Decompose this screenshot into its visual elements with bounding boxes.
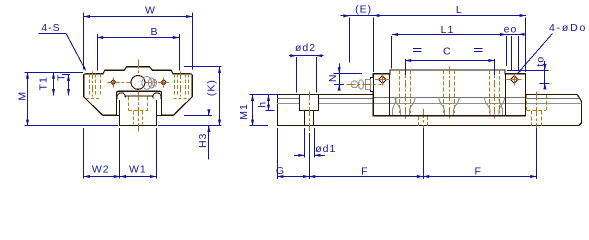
dimension T xyxy=(55,73,70,95)
dimension L1 xyxy=(392,24,506,36)
dimension M1 extension lines xyxy=(250,95,278,126)
svg-text:C: C xyxy=(443,46,452,58)
dimension G xyxy=(276,165,309,178)
dimension W2/W1 extension lines xyxy=(84,128,157,179)
left view end cap screws xyxy=(108,77,169,87)
dimension (E)/L extension lines xyxy=(350,18,526,73)
left view vertical centerline xyxy=(138,60,140,132)
dimension (E) xyxy=(341,3,374,17)
dimension to extension lines xyxy=(507,71,550,84)
dimension M1 xyxy=(238,95,254,126)
right view counterbore hole centerline xyxy=(309,91,311,131)
right view rail groove lines xyxy=(277,98,581,104)
svg-text:eo: eo xyxy=(504,23,518,35)
dimension M xyxy=(16,72,29,125)
svg-text:4-øDo: 4-øDo xyxy=(549,22,587,34)
svg-text:ød2: ød2 xyxy=(295,42,316,54)
dimension C ticks xyxy=(406,59,495,76)
left view 4-S threaded holes hidden lines + centerlines xyxy=(86,72,189,99)
svg-text:T1: T1 xyxy=(38,76,50,90)
dimension h xyxy=(257,95,271,111)
svg-text:W: W xyxy=(145,5,156,17)
right view rail outline xyxy=(277,95,581,126)
right view counterbore hole (sectioned) xyxy=(299,95,319,126)
dimension H3 xyxy=(197,109,210,159)
dimension F first xyxy=(309,166,423,179)
svg-text:G: G xyxy=(276,165,285,177)
dimension B extension lines xyxy=(98,34,180,71)
dimension d2 extension lines xyxy=(297,57,317,92)
svg-text:M: M xyxy=(16,91,28,101)
dimension B xyxy=(97,26,179,39)
dimension d2 xyxy=(289,42,324,57)
dimension eo xyxy=(504,23,525,36)
svg-text:W1: W1 xyxy=(129,164,147,176)
label 4-S with leader xyxy=(39,22,86,71)
svg-text:F: F xyxy=(474,166,481,178)
svg-text:h: h xyxy=(257,101,269,108)
dimension N xyxy=(327,64,341,91)
right view hidden bolt hole under block xyxy=(419,109,428,131)
dimension (K) top extension line xyxy=(184,66,222,68)
dimension d1 xyxy=(294,143,336,157)
right view grease nipple centerline xyxy=(347,84,382,86)
dimension T1 xyxy=(38,72,56,95)
dimension L xyxy=(373,4,526,17)
label 4-oDo with leader xyxy=(518,22,588,73)
svg-text:M1: M1 xyxy=(238,103,250,120)
dimension to xyxy=(534,56,546,90)
dimension d1 extension lines xyxy=(305,128,315,157)
right view 4-oDo hole markers xyxy=(375,74,522,86)
dimension L1 extension lines xyxy=(392,36,507,68)
svg-text:W2: W2 xyxy=(92,164,110,176)
dimension M/T1 top extension line xyxy=(25,72,84,74)
dimension N extension lines xyxy=(334,74,363,85)
left view horizontal centerline xyxy=(111,82,167,84)
svg-text:N: N xyxy=(327,74,339,83)
dimension H3 extension line xyxy=(184,115,212,117)
dimension W xyxy=(84,5,193,19)
right view hidden bolt hole right of block xyxy=(527,91,547,131)
left view rail cross-section xyxy=(117,100,162,126)
dimension h extension line xyxy=(266,110,275,112)
svg-text:4-S: 4-S xyxy=(41,22,60,34)
dimension G/F extension lines xyxy=(278,128,537,179)
dimension eo extension line xyxy=(512,36,519,71)
left view grease nipple xyxy=(131,76,156,90)
dimension W1 xyxy=(120,164,156,179)
right view grease nipple xyxy=(351,78,373,92)
svg-text:L: L xyxy=(456,4,463,16)
rail bottom extension line xyxy=(25,125,222,127)
svg-text:(K): (K) xyxy=(206,79,218,96)
dimension (K) xyxy=(206,67,222,126)
svg-text:(E): (E) xyxy=(355,3,372,15)
svg-text:to: to xyxy=(534,56,546,67)
left view block outline xyxy=(84,67,193,116)
svg-text:F: F xyxy=(361,166,368,178)
svg-text:H3: H3 xyxy=(197,133,209,148)
right view block mounting holes hidden lines xyxy=(400,67,500,120)
svg-text:ød1: ød1 xyxy=(315,143,336,155)
dimension F second xyxy=(423,166,536,179)
svg-text:L1: L1 xyxy=(441,24,455,36)
svg-text:T: T xyxy=(55,73,67,80)
dimension C xyxy=(405,46,495,63)
right view ball track funnels xyxy=(393,97,505,116)
dimension W2 xyxy=(84,164,120,179)
svg-text:B: B xyxy=(150,26,158,38)
left view channel inner profile xyxy=(117,93,161,99)
right view block outline xyxy=(373,70,525,116)
left view rail bolt hole hidden lines xyxy=(128,97,148,125)
dimension T tick xyxy=(62,74,70,76)
dimension W extension lines xyxy=(84,13,193,70)
